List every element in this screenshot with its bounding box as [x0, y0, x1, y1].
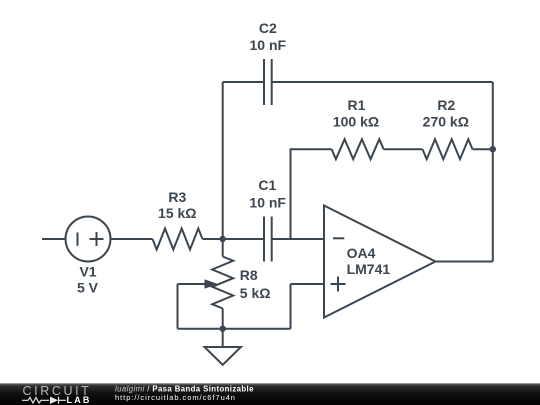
wire non-inverting down to bottom rail: [290, 284, 292, 329]
potentiometer R8 bottom lead: [222, 309, 224, 329]
wire R1 to R2: [384, 148, 423, 150]
resistor R1: [332, 139, 384, 159]
voltage source V1: [66, 217, 111, 262]
svg-text:V1: V1: [79, 264, 96, 280]
wire input stub left of V1: [42, 238, 66, 240]
svg-text:OA4: OA4: [347, 245, 376, 261]
svg-text:R1: R1: [348, 97, 366, 113]
svg-text:10 nF: 10 nF: [250, 37, 287, 53]
svg-text:5 kΩ: 5 kΩ: [240, 285, 271, 301]
wire right vertical from top rail to output: [492, 82, 494, 262]
svg-text:R3: R3: [168, 189, 186, 205]
potentiometer R8 top lead: [222, 239, 224, 257]
op-amp U1 OA4 triangle: [324, 206, 436, 318]
wire top rail left: [223, 81, 264, 83]
wire V1 to R3: [111, 238, 153, 240]
junction bottom node dot: [220, 326, 226, 332]
potentiometer wiper arrowhead: [205, 279, 218, 289]
svg-text:http://circuitlab.com/c6f7u4n: http://circuitlab.com/c6f7u4n: [115, 393, 236, 402]
wire bottom rail: [178, 328, 291, 330]
ground symbol: [205, 347, 241, 365]
wire op-amp output: [436, 261, 493, 263]
svg-text:R8: R8: [240, 267, 258, 283]
svg-text:C2: C2: [259, 20, 277, 36]
junction node A dot: [220, 236, 226, 242]
resistor R2: [423, 139, 473, 159]
op-amp plus symbol: [331, 277, 346, 292]
potentiometer wiper vertical wire: [177, 284, 179, 329]
potentiometer R8 zigzag: [212, 257, 233, 309]
wire inverting node up and to R1: [291, 149, 332, 239]
wire R2 to output junction: [473, 148, 493, 150]
wire C1 to op-amp inverting input: [272, 238, 324, 240]
svg-text:C1: C1: [258, 177, 276, 193]
svg-text:270 kΩ: 270 kΩ: [423, 114, 469, 130]
wire top rail right: [272, 81, 493, 83]
svg-text:10 nF: 10 nF: [249, 195, 286, 211]
wire node A up to top rail: [222, 82, 224, 239]
wire to non-inverting input: [291, 283, 325, 285]
resistor R3: [153, 229, 203, 250]
op-amp minus symbol: [333, 237, 344, 239]
logo diode triangle: [50, 397, 58, 405]
svg-text:LAB: LAB: [67, 395, 92, 405]
footer bar: [0, 383, 540, 405]
svg-text:5 V: 5 V: [77, 280, 99, 296]
svg-text:100 kΩ: 100 kΩ: [333, 114, 379, 130]
capacitor C2: [264, 59, 272, 105]
svg-text:15 kΩ: 15 kΩ: [158, 205, 196, 221]
capacitor C1: [264, 217, 272, 262]
wire R3 to node A: [203, 238, 265, 240]
junction output feedback dot: [490, 146, 496, 152]
svg-text:R2: R2: [437, 97, 455, 113]
potentiometer wiper arrow shaft: [178, 283, 207, 285]
ground lead: [222, 329, 224, 347]
svg-text:LM741: LM741: [347, 261, 391, 277]
logo resistor-diode squiggle: [22, 397, 66, 404]
